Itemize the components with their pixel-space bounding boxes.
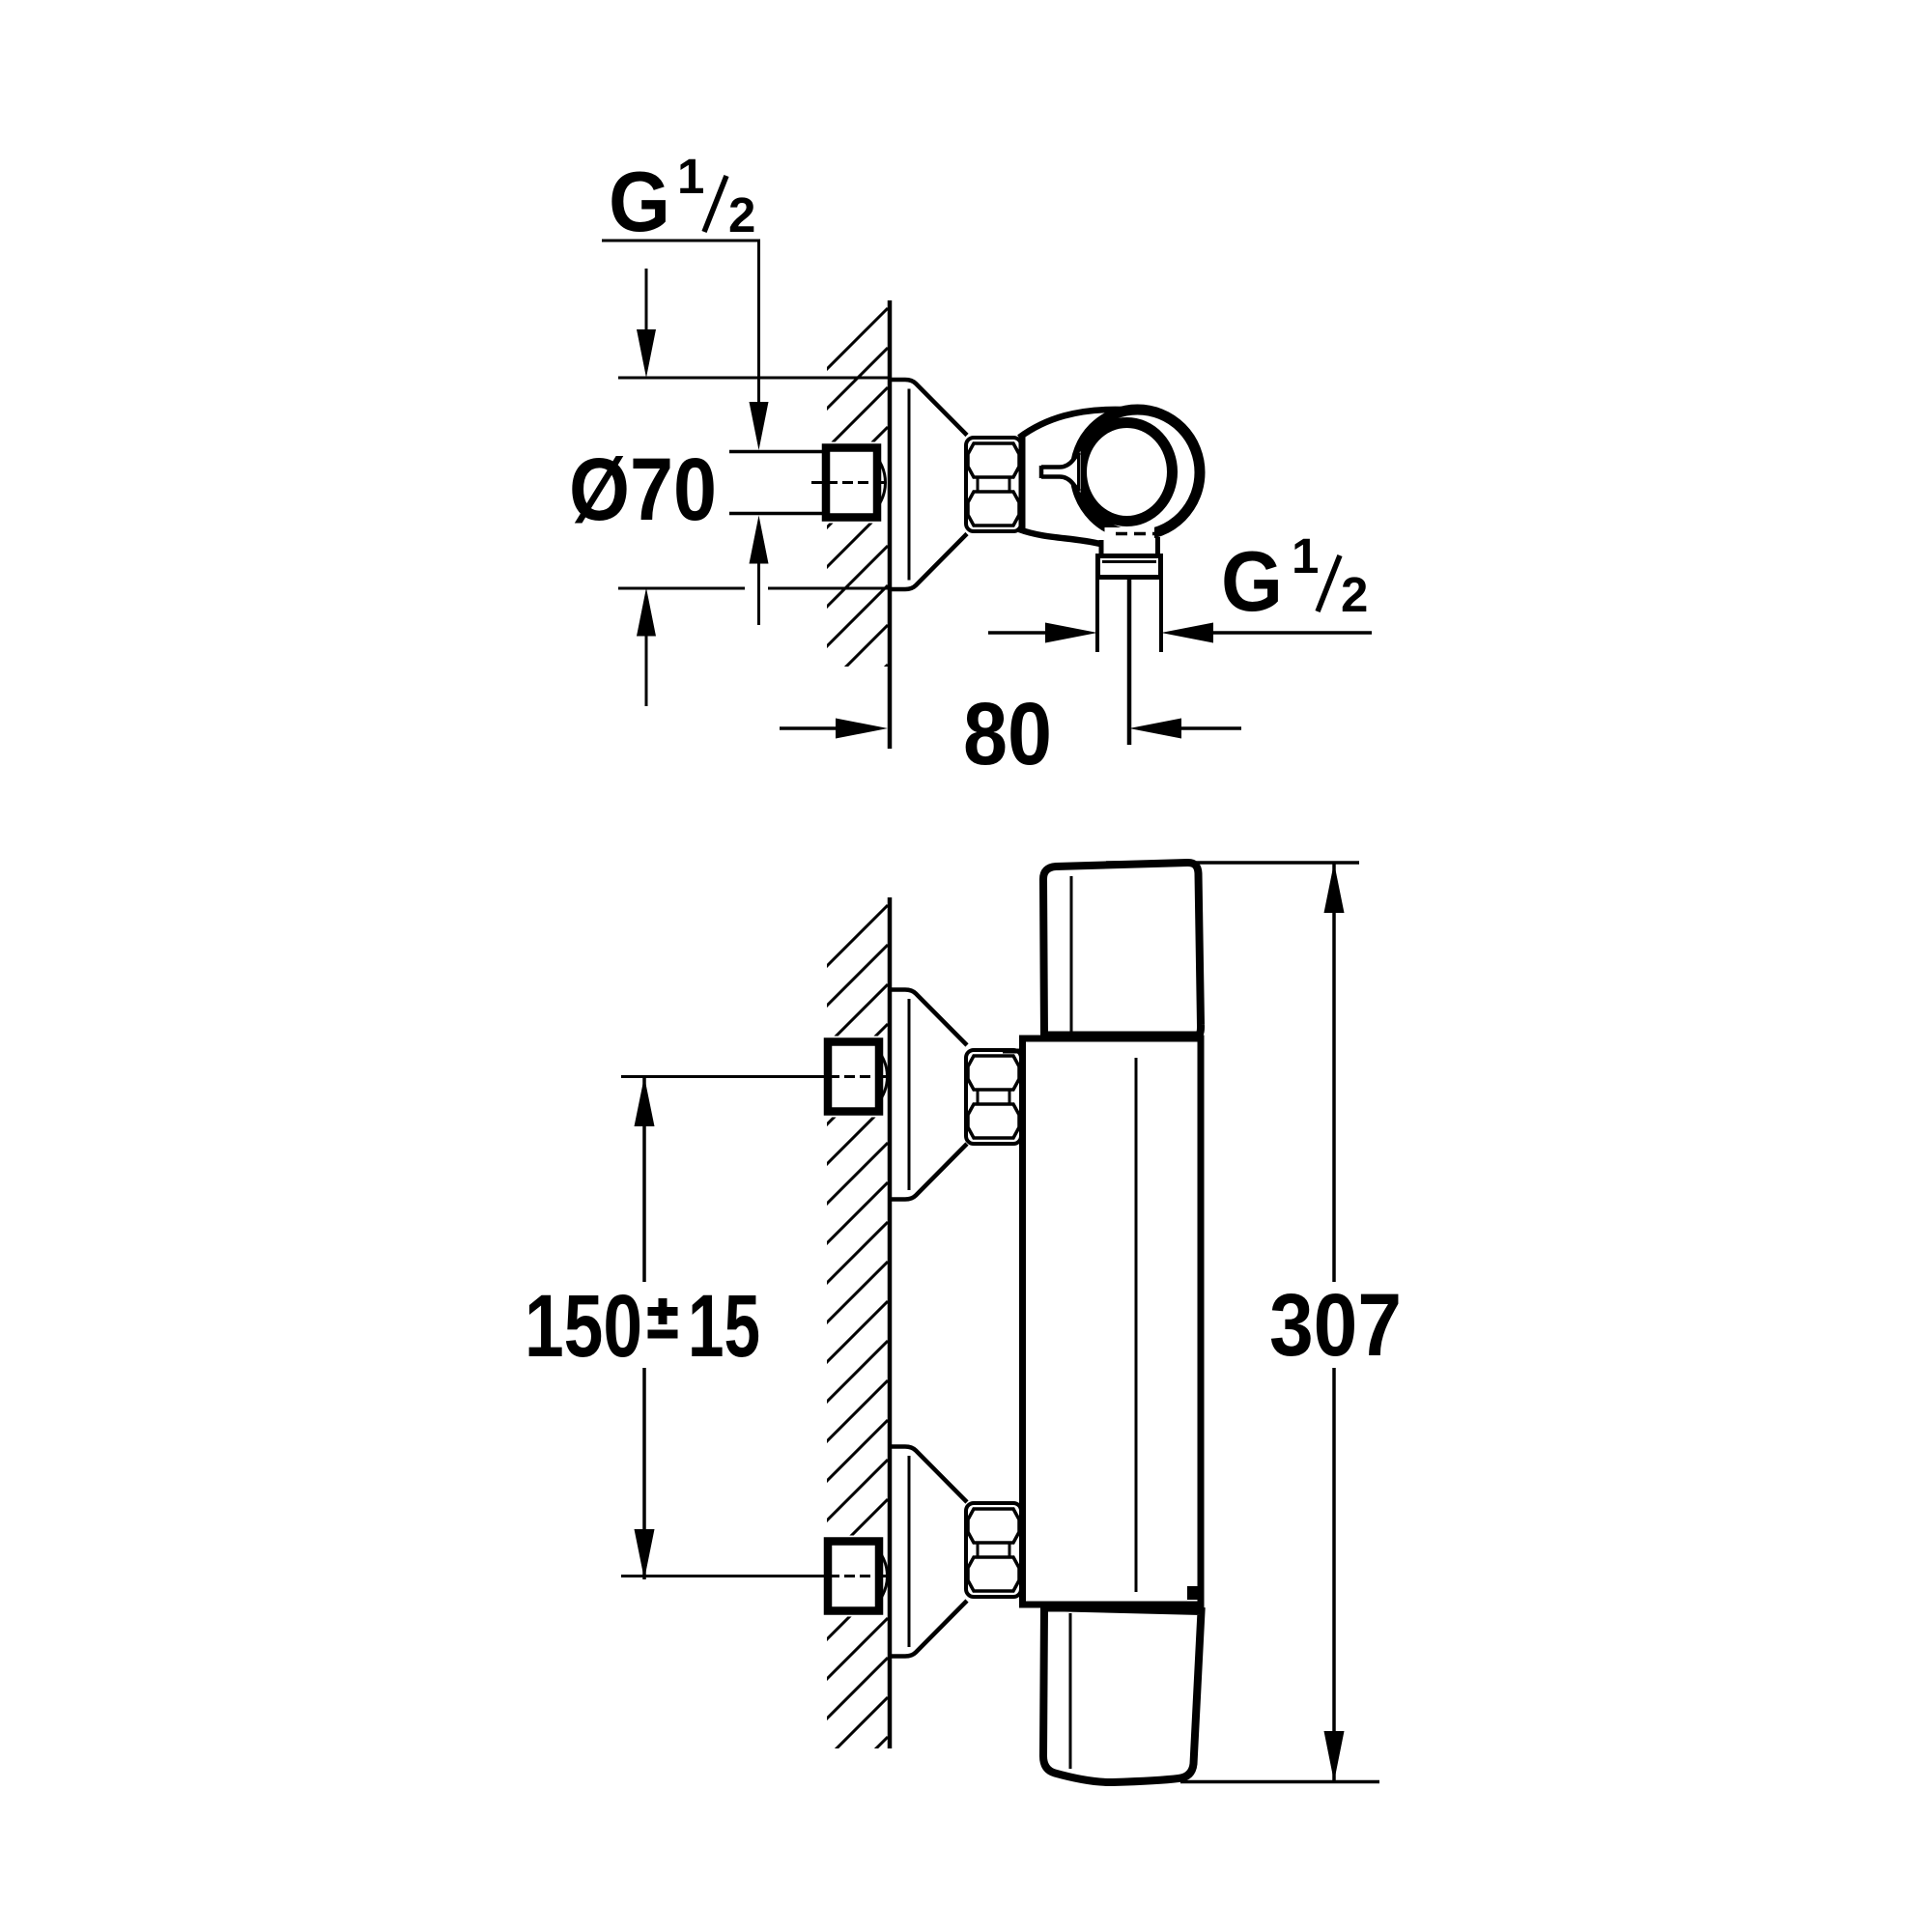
mixer body (bottom view) bbox=[1023, 1038, 1202, 1605]
inlet pipe stub (top view) bbox=[729, 452, 827, 514]
hidden knob edge (dashed) behind outlet bbox=[1116, 532, 1156, 536]
svg-text:307: 307 bbox=[1269, 1276, 1402, 1375]
150±15 extension line bottom bbox=[621, 1575, 826, 1577]
body highlight line bbox=[1135, 1058, 1138, 1592]
150±15 dimension line and arrows bbox=[642, 1077, 646, 1283]
wall hatching (bottom view) bbox=[826, 905, 888, 1799]
safety stop button (funnel shape) bbox=[1041, 451, 1081, 493]
marking on body right edge bbox=[1187, 1586, 1201, 1600]
hex nut of S-union (bottom view, upper) bbox=[966, 1050, 1021, 1144]
bottom cap (volume handle) bbox=[1043, 1607, 1202, 1782]
80 dimension left arrow (to wall) bbox=[780, 726, 837, 730]
dimension extension line Ø70 bottom bbox=[618, 587, 745, 590]
G 1/2 dimension (hose) left arrow bbox=[988, 631, 1046, 635]
svg-text:G: G bbox=[1221, 533, 1283, 629]
concealed union nut in wall (bottom view, upper) bbox=[813, 1037, 891, 1118]
escutcheon cone (bottom view, lower) bbox=[889, 1447, 967, 1657]
top cap (temperature handle) bbox=[1043, 863, 1201, 1037]
escutcheon cone (top view) bbox=[889, 380, 967, 589]
escutcheon cone (bottom view, upper) bbox=[889, 990, 967, 1200]
307 extension line top bbox=[1106, 861, 1359, 865]
hex nut of S-union (bottom view, lower) bbox=[966, 1503, 1021, 1597]
dimension extension line Ø70 top bbox=[618, 377, 888, 380]
307 extension line bottom bbox=[1180, 1780, 1379, 1784]
leader line of G 1/2 top label bbox=[602, 240, 760, 242]
label G 1/2 (hose thread) bbox=[1221, 528, 1368, 629]
G 1/2 dimension (hose) right arrow bbox=[1161, 623, 1213, 643]
svg-text:1: 1 bbox=[677, 149, 704, 204]
label G 1/2 (top, inlet thread) bbox=[609, 149, 755, 249]
150±15 extension line top bbox=[621, 1075, 826, 1078]
outlet neck region masking knob ring (hidden area) bbox=[1105, 527, 1155, 554]
arrow up to Ø70 bottom extension bbox=[637, 588, 656, 637]
valve body (top view) bbox=[1019, 437, 1026, 530]
307 dimension line and arrows bbox=[1332, 863, 1336, 1282]
outlet neck below knob bbox=[1099, 540, 1104, 554]
svg-text:15: 15 bbox=[688, 1277, 760, 1376]
wall hatching (top view) bbox=[826, 308, 888, 726]
thermostat knob outer ring bbox=[1075, 410, 1200, 535]
80 dimension right arrow (to hose axis) bbox=[1129, 719, 1181, 739]
arrow down to Ø70 top extension bbox=[645, 269, 648, 330]
wall face line (bottom view) bbox=[888, 897, 893, 1748]
hose centerline bbox=[1127, 580, 1132, 745]
arrow up to pipe bottom (G 1/2) bbox=[750, 516, 769, 564]
hose union nut bbox=[1098, 556, 1161, 578]
thermostat knob inner ring bbox=[1082, 423, 1173, 522]
arrow down to pipe top (G 1/2) bbox=[750, 402, 769, 450]
svg-text:150: 150 bbox=[525, 1277, 642, 1376]
svg-text:2: 2 bbox=[1341, 567, 1368, 622]
hex nut of S-union (top view) bbox=[966, 438, 1021, 531]
svg-text:Ø70: Ø70 bbox=[569, 440, 717, 539]
concealed union nut in wall (bottom view, lower) bbox=[813, 1536, 891, 1617]
body port ledge (upper) bbox=[1003, 1049, 1020, 1054]
wall face line (top view) bbox=[888, 300, 893, 749]
shower hose connection (G 1/2) bbox=[1095, 580, 1099, 652]
svg-text:2: 2 bbox=[728, 187, 755, 242]
svg-text:80: 80 bbox=[963, 685, 1052, 783]
svg-text:1: 1 bbox=[1292, 528, 1319, 583]
svg-text:G: G bbox=[609, 154, 670, 249]
concealed union nut in wall (top view) bbox=[811, 442, 889, 524]
